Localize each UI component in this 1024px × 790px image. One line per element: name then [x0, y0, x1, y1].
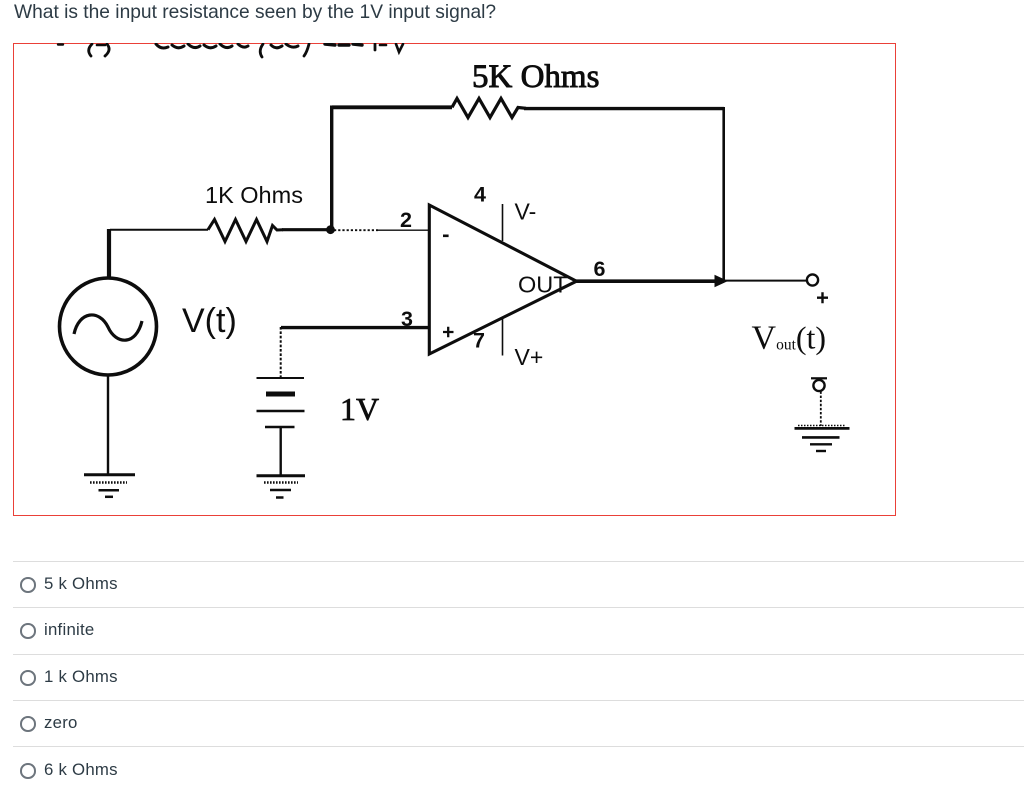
svg-text:2: 2: [400, 208, 412, 232]
svg-text:OUT: OUT: [518, 272, 568, 298]
svg-text:1V: 1V: [340, 391, 379, 427]
svg-text:1K Ohms: 1K Ohms: [205, 182, 303, 208]
svg-text:5K Ohms: 5K Ohms: [472, 59, 599, 95]
svg-text:7: 7: [473, 329, 485, 353]
svg-text:3: 3: [401, 307, 413, 331]
svg-text:4: 4: [474, 183, 486, 207]
svg-text:Vout(t): Vout(t): [752, 320, 827, 357]
svg-text:V+: V+: [515, 344, 544, 370]
svg-text:V-: V-: [515, 199, 537, 225]
svg-text:V(t): V(t): [182, 302, 237, 340]
svg-text:6: 6: [594, 257, 606, 281]
